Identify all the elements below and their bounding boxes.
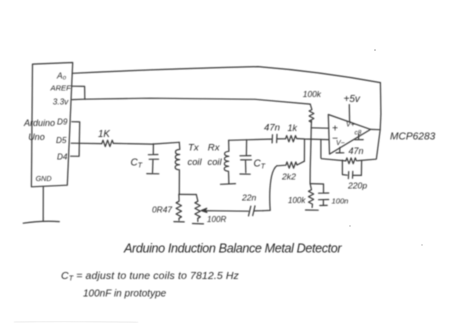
svg-text:V−: V−: [336, 140, 345, 147]
svg-text:A₀: A₀: [56, 71, 67, 81]
ground RV1: [193, 223, 204, 225]
wire output riser: [371, 83, 381, 159]
svg-text:Uno: Uno: [28, 132, 45, 142]
wire 22n to 2k2: [263, 166, 277, 211]
wire R4 to minus junction: [298, 139, 328, 140]
svg-text:Arduino Induction Balance Meta: Arduino Induction Balance Metal Detector: [123, 242, 342, 256]
svg-text:2k2: 2k2: [281, 172, 296, 182]
inductor L1 Tx coil: [175, 142, 180, 194]
resistor R6 100k bottom: [309, 184, 314, 208]
ink speck 2: [349, 225, 350, 226]
ink speck 1: [374, 49, 376, 51]
svg-text:c8: c8: [355, 130, 362, 137]
wire junction L1 bottom: [179, 193, 196, 195]
svg-text:Tx: Tx: [188, 143, 200, 154]
svg-text:D9: D9: [57, 117, 68, 126]
svg-text:Arduino: Arduino: [23, 118, 55, 128]
wire bias vertical: [310, 121, 311, 184]
ground op-amp V- pin: [336, 147, 344, 153]
capacitor C220p: [342, 160, 361, 179]
faint scan smudge: [14, 321, 138, 322]
svg-text:GND: GND: [36, 174, 52, 183]
wire feedback drop: [321, 140, 346, 161]
svg-text:V+: V+: [346, 121, 355, 128]
svg-text:22n: 22n: [241, 193, 257, 203]
wire A0 top: [72, 67, 380, 83]
resistor R1 1K: [102, 140, 114, 146]
svg-text:100R: 100R: [207, 215, 227, 224]
wire 3.3v rail: [72, 98, 310, 104]
svg-text:CT: CT: [131, 158, 143, 170]
capacitor C47n input: [270, 134, 286, 143]
svg-text:1k: 1k: [288, 123, 298, 133]
svg-text:100nF in prototype: 100nF in prototype: [83, 288, 167, 299]
svg-text:D4: D4: [57, 153, 68, 162]
wire +5v lead: [348, 105, 350, 122]
svg-text:3.3v: 3.3v: [53, 98, 69, 107]
wire bias junction to cap: [310, 183, 323, 185]
svg-text:MCP6283: MCP6283: [390, 132, 436, 143]
svg-text:220p: 220p: [347, 181, 367, 191]
wire D9-D4 bracket: [71, 122, 80, 157]
svg-text:100n: 100n: [332, 197, 349, 206]
capacitor CT2: [240, 140, 252, 173]
ground L2: [221, 183, 236, 186]
svg-text:0R47: 0R47: [152, 205, 172, 215]
svg-text:1K: 1K: [98, 129, 110, 140]
wire GND lead: [42, 187, 44, 221]
wiper arrow RV1: [201, 208, 248, 212]
resistor R7 47n feedback: [346, 158, 377, 164]
svg-text:CT: CT: [254, 159, 266, 171]
svg-text:+5v: +5v: [344, 94, 361, 105]
inductor L2 Rx coil: [224, 140, 229, 184]
svg-text:AREF: AREF: [50, 84, 72, 93]
ground CT1: [147, 173, 159, 175]
wire R1 to Tx node: [114, 142, 180, 144]
potentiometer RV1 100R: [195, 195, 200, 222]
svg-text:Rx: Rx: [208, 143, 221, 154]
resistor R4 1k input: [286, 136, 299, 142]
ground R6: [306, 209, 319, 211]
capacitor CT1: [148, 144, 158, 173]
ground R2: [174, 221, 184, 223]
ground under arduino: [23, 221, 59, 223]
svg-text:47n: 47n: [349, 146, 364, 156]
ground CT2: [240, 173, 250, 175]
resistor R5 100k top: [309, 104, 314, 122]
wire AREF-3.3v bracket: [72, 86, 85, 99]
wire Rx top: [229, 139, 270, 140]
ground op-amp apex: [355, 134, 363, 139]
wire plus input: [311, 127, 328, 129]
resistor R2 0R47: [176, 194, 181, 220]
svg-text:D5: D5: [56, 136, 67, 145]
svg-text:47n: 47n: [264, 123, 280, 134]
arduino U1 box: [31, 63, 72, 187]
svg-text:CT = adjust to tune coils to 7: CT = adjust to tune coils to 7812.5 Hz: [61, 270, 240, 283]
ink speck 3: [421, 244, 422, 245]
resistor R3 2k2: [277, 161, 305, 168]
capacitor C100n: [319, 184, 329, 206]
capacitor C22n: [249, 206, 264, 216]
svg-text:100k: 100k: [288, 196, 306, 205]
svg-text:coil: coil: [208, 156, 223, 167]
svg-text:coil: coil: [188, 156, 203, 167]
op-amp U2 triangle: [328, 115, 370, 155]
wire D5 out: [71, 142, 102, 144]
wire 2k2 up to junction: [303, 139, 305, 161]
svg-text:100k: 100k: [303, 89, 322, 99]
